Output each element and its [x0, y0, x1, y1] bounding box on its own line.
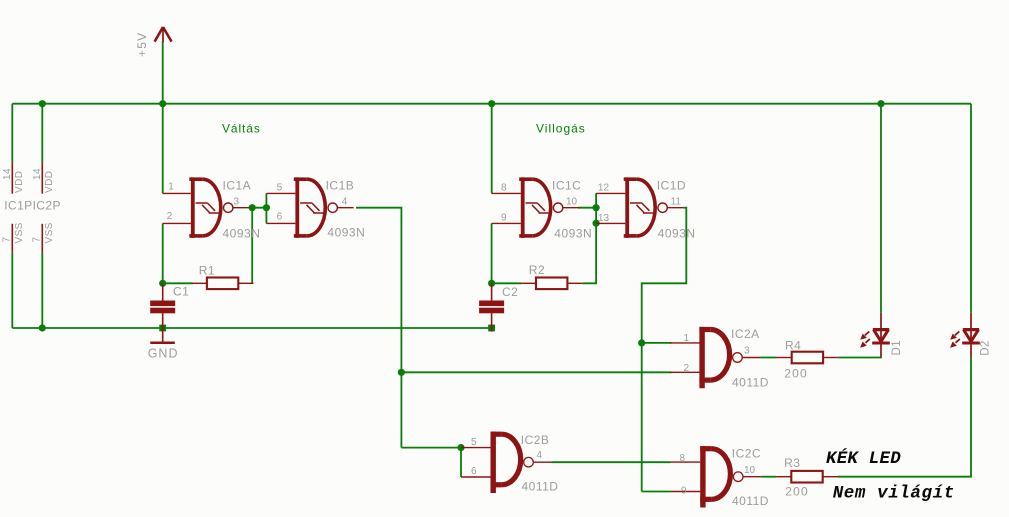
wire R3 to LED D2	[838, 357, 971, 477]
wire IC1D output to IC2 gates	[642, 208, 687, 492]
resistor R1	[192, 278, 254, 290]
svg-text:2: 2	[167, 211, 173, 222]
svg-text:Váltás: Váltás	[222, 122, 261, 136]
LED D1	[860, 313, 890, 357]
+5V supply symbol	[155, 27, 172, 42]
svg-text:4: 4	[342, 196, 348, 207]
svg-text:6: 6	[277, 212, 283, 223]
svg-text:200: 200	[784, 367, 808, 381]
wire GND rail	[12, 327, 491, 329]
junction C2 / R2 node	[488, 280, 495, 287]
junction rail / +5V stem	[159, 100, 166, 107]
wire IC1A output to IC1B inputs	[249, 207, 266, 209]
wire left drop to IC1P VDD	[11, 104, 13, 163]
resistor R3	[776, 471, 838, 483]
svg-text:6: 6	[471, 466, 477, 477]
power pin IC1P VDD pin 14	[11, 163, 13, 194]
resistor R2	[521, 278, 583, 290]
svg-text:IC1PIC2P: IC1PIC2P	[4, 199, 61, 213]
NAND gate IC1D	[596, 177, 684, 238]
wire IC2P VDD drop	[41, 104, 43, 163]
svg-text:9: 9	[681, 485, 687, 496]
svg-text:C2: C2	[502, 285, 518, 299]
svg-text:R2: R2	[529, 263, 545, 277]
wire IC2A output to R4	[760, 357, 776, 359]
svg-text:4011D: 4011D	[732, 494, 769, 508]
svg-text:7: 7	[1, 237, 12, 243]
svg-text:Nem világít: Nem világít	[833, 484, 955, 504]
svg-text:1: 1	[684, 333, 690, 344]
wire +5V rail	[12, 103, 971, 105]
wire rail drop to LED D1	[880, 104, 882, 313]
wire to IC2A pin 1	[642, 342, 672, 344]
svg-text:10: 10	[566, 196, 578, 207]
svg-text:4093N: 4093N	[658, 226, 696, 240]
svg-text:R4: R4	[785, 339, 801, 353]
svg-text:VDD: VDD	[14, 171, 25, 193]
svg-text:GND: GND	[148, 347, 179, 361]
svg-text:Villogás: Villogás	[536, 122, 586, 136]
svg-text:IC1B: IC1B	[326, 179, 355, 193]
wire R2 left tap	[492, 282, 522, 284]
NAND gate IC2A	[670, 327, 761, 388]
NAND gate IC1C	[492, 177, 579, 238]
svg-text:R1: R1	[199, 264, 215, 278]
junction GND rail / C2	[488, 325, 495, 332]
svg-text:IC1A: IC1A	[223, 179, 252, 193]
resistor R4	[777, 352, 839, 364]
wire IC1B input tie pins 5-6	[265, 193, 267, 223]
svg-text:12: 12	[598, 182, 610, 193]
wire R1 left tap	[163, 282, 193, 284]
capacitor C2	[479, 301, 504, 314]
wire R1 right to IC1A output	[251, 208, 253, 284]
NAND gate IC1A	[163, 177, 250, 238]
svg-text:IC2A: IC2A	[731, 327, 760, 341]
svg-text:5: 5	[277, 183, 283, 194]
wire IC1B output to IC2B	[356, 208, 401, 448]
svg-text:KÉK LED: KÉK LED	[826, 447, 901, 469]
svg-text:+5V: +5V	[135, 32, 149, 57]
power pin IC1P VSS pin 7	[11, 224, 13, 253]
wire IC2B input tie pins 5-6	[460, 448, 462, 477]
junction IC2A pin 1 branch	[638, 339, 645, 346]
wire rail drop to IC1C pin 8	[491, 104, 493, 194]
wire IC2C output to R3	[761, 476, 776, 478]
wire IC1C pin9 / C2 / R2 node	[491, 223, 493, 283]
wire IC1A pin2 / C1 / R1 node	[162, 223, 164, 283]
junction IC1B input tie	[263, 204, 270, 211]
NAND gate IC2C	[671, 446, 762, 507]
junction IC2B input tie	[457, 444, 464, 451]
junction IC1C output / IC1D node	[593, 204, 600, 211]
junction rail / IC2P	[39, 100, 46, 107]
svg-text:7: 7	[31, 237, 42, 243]
svg-text:2: 2	[684, 363, 690, 374]
NAND gate IC2B	[461, 432, 552, 493]
svg-text:D1: D1	[891, 340, 903, 356]
svg-text:VSS: VSS	[44, 222, 55, 243]
power pin IC2P VSS pin 7	[41, 224, 43, 253]
svg-text:10: 10	[744, 465, 756, 476]
svg-text:4: 4	[537, 450, 543, 461]
svg-text:13: 13	[598, 213, 610, 224]
svg-text:IC2B: IC2B	[521, 433, 550, 447]
svg-text:VSS: VSS	[14, 222, 25, 243]
svg-text:9: 9	[501, 213, 507, 224]
junction IC1D pin 13 tie	[593, 220, 600, 227]
svg-text:200: 200	[785, 485, 809, 499]
wire IC2B output to IC2C pin 8	[552, 461, 671, 463]
svg-text:14: 14	[32, 168, 43, 180]
svg-text:C1: C1	[173, 284, 189, 298]
wire IC1P VSS to GND rail	[11, 253, 13, 328]
wire R2 right to IC1D inputs	[583, 193, 597, 283]
wire to IC2B pin 5	[401, 447, 461, 449]
junction rail / IC1C drop	[488, 100, 495, 107]
LED D2	[950, 313, 980, 357]
capacitor C2 leads	[491, 283, 493, 301]
svg-text:1: 1	[168, 181, 174, 192]
svg-text:4011D: 4011D	[732, 376, 769, 390]
svg-text:IC1D: IC1D	[657, 179, 686, 193]
capacitor C1 leads	[162, 283, 164, 301]
svg-text:IC1C: IC1C	[552, 179, 581, 193]
svg-text:4011D: 4011D	[522, 480, 559, 494]
svg-text:8: 8	[501, 183, 507, 194]
wire rail drop to LED D2	[970, 104, 972, 313]
junction C1 / R1 node	[159, 280, 166, 287]
svg-text:IC2C: IC2C	[732, 447, 761, 461]
wire to IC2A pin 2	[401, 371, 671, 373]
wire R4 to LED D1	[838, 356, 881, 359]
svg-text:4093N: 4093N	[223, 226, 261, 240]
svg-text:R3: R3	[784, 456, 800, 470]
junction GND rail / IC2P	[39, 324, 46, 331]
junction GND rail / C1	[159, 325, 166, 332]
junction IC1A output node	[249, 204, 256, 211]
svg-text:3: 3	[744, 345, 750, 356]
power pin IC2P VDD pin 14	[41, 163, 43, 194]
wire IC2P VSS to GND rail	[41, 253, 43, 328]
svg-text:3: 3	[234, 196, 240, 207]
svg-text:D2: D2	[980, 340, 992, 356]
svg-text:5: 5	[471, 437, 477, 448]
svg-text:14: 14	[2, 168, 13, 180]
svg-text:VDD: VDD	[44, 171, 55, 193]
wire IC1C output to IC1D	[578, 207, 596, 209]
wire to IC2C pin 9	[642, 491, 671, 493]
svg-text:8: 8	[680, 453, 686, 464]
svg-text:4093N: 4093N	[554, 226, 592, 240]
ground symbol GND	[150, 342, 175, 345]
junction IC2A pin 2 branch	[398, 369, 405, 376]
svg-text:4093N: 4093N	[327, 225, 365, 239]
wire +5V stem to IC1A pin 1	[162, 42, 164, 194]
capacitor C1	[150, 301, 175, 314]
NAND gate IC1B	[266, 177, 353, 238]
svg-text:11: 11	[671, 196, 682, 207]
junction rail / D1 drop	[877, 100, 884, 107]
